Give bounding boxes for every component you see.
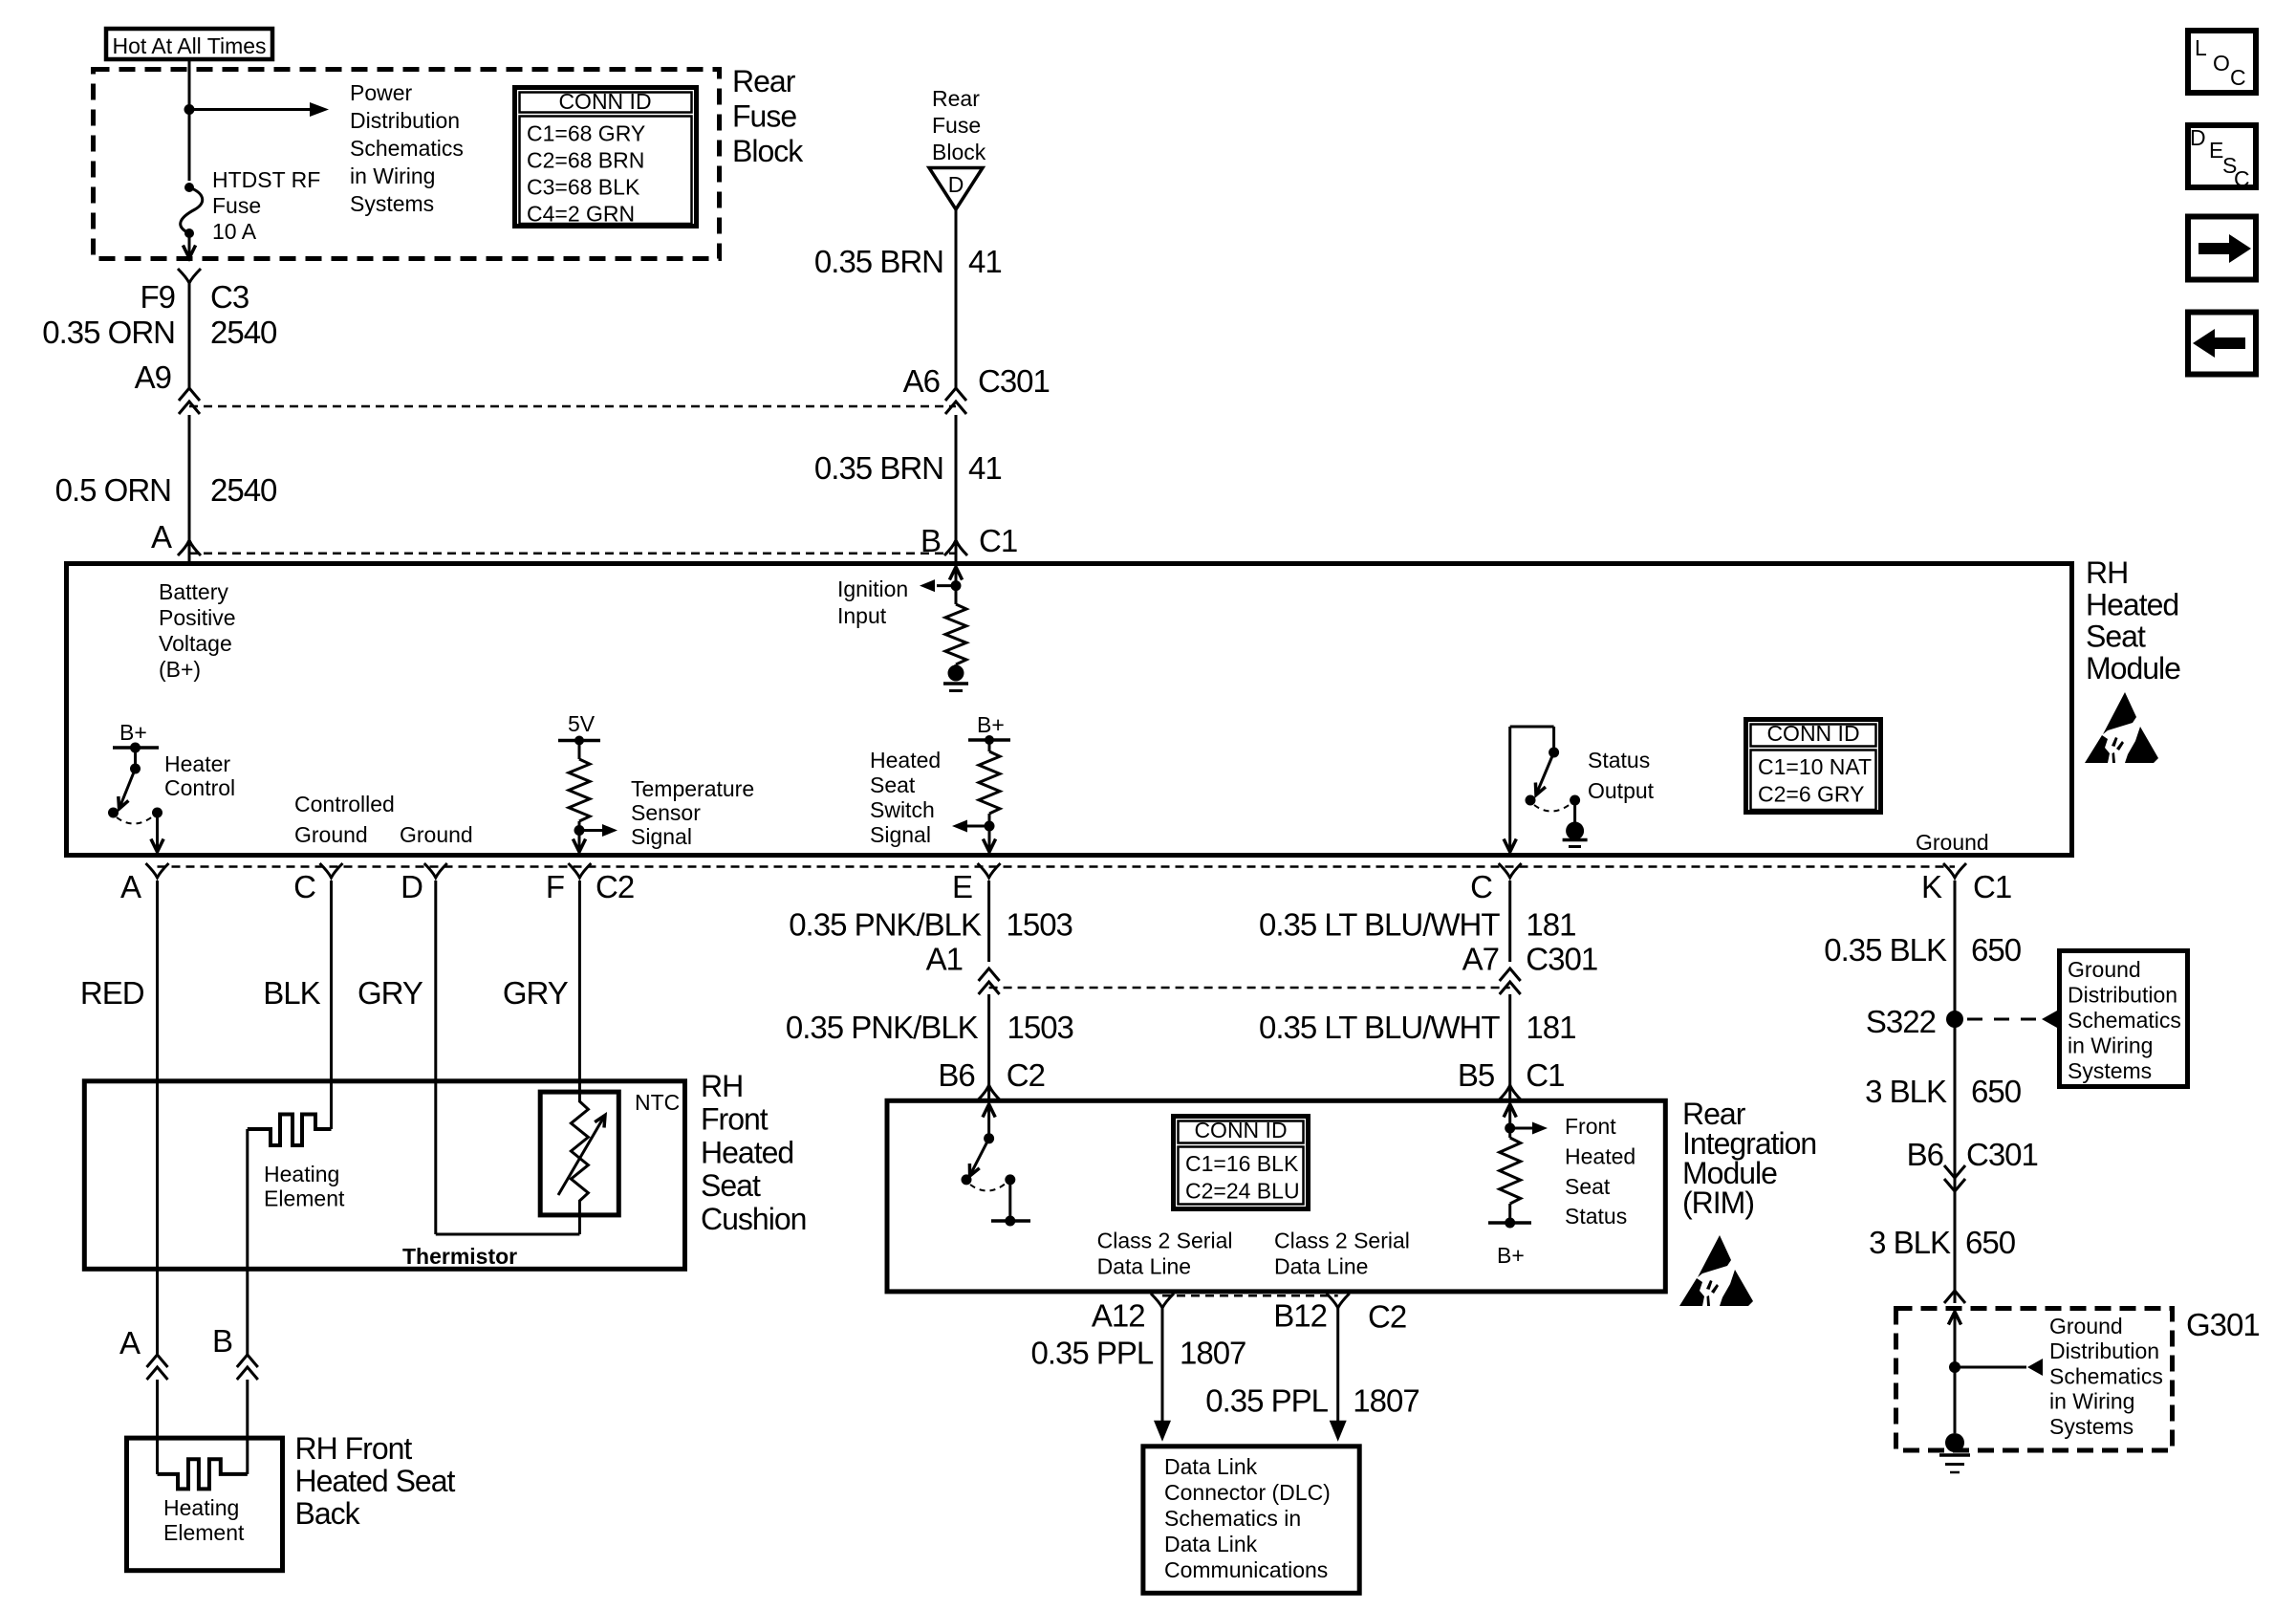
svg-text:Heater: Heater xyxy=(164,751,230,776)
connector fork RIM pin B6 xyxy=(978,1085,1001,1100)
wire 1503 pin E lower xyxy=(987,994,990,1099)
svg-text:2540: 2540 xyxy=(210,315,277,350)
svg-text:RH: RH xyxy=(701,1069,743,1103)
pin label B6 | C2 xyxy=(938,1057,1045,1093)
wire seat switch to pin E xyxy=(983,826,995,852)
svg-text:Control: Control xyxy=(164,775,235,800)
wire BLK pin C to heating element xyxy=(330,881,333,1129)
resistor ignition pull-down xyxy=(945,604,966,664)
pin label C2 xyxy=(596,869,634,904)
svg-text:CONN ID: CONN ID xyxy=(1194,1118,1287,1142)
splice S322 xyxy=(1946,1011,1963,1028)
svg-text:A: A xyxy=(151,519,172,555)
svg-text:F: F xyxy=(546,869,564,904)
pin letter C (status output) xyxy=(1470,869,1492,904)
resistor temperature sensor pull-up xyxy=(569,741,590,831)
svg-text:A1: A1 xyxy=(926,942,963,977)
switch RIM heated seat input xyxy=(962,1104,996,1185)
label 0.5 ORN | 2540 xyxy=(55,472,277,508)
wire 1807 B12 xyxy=(1330,1308,1347,1442)
label S322 xyxy=(1866,1004,1936,1039)
label Ground (pin D) xyxy=(400,822,473,847)
svg-text:Communications: Communications xyxy=(1164,1557,1328,1582)
wire heating element to seat back (B) xyxy=(246,1129,249,1355)
svg-text:in Wiring: in Wiring xyxy=(2049,1389,2134,1414)
label Controlled Ground xyxy=(294,792,395,847)
svg-text:C301: C301 xyxy=(978,363,1050,399)
label 3 BLK | 650 (upper) xyxy=(1865,1074,2022,1109)
pin label A1 xyxy=(926,942,963,977)
label Data Link Connector (DLC) Schematics xyxy=(1164,1454,1331,1582)
svg-text:0.35 ORN: 0.35 ORN xyxy=(42,315,175,350)
svg-text:D: D xyxy=(401,869,422,904)
svg-text:41: 41 xyxy=(968,244,1002,279)
svg-text:0.35 PNK/BLK: 0.35 PNK/BLK xyxy=(786,1010,979,1045)
svg-text:41: 41 xyxy=(968,450,1002,486)
wire into module pin A (battery feed) xyxy=(188,541,191,561)
svg-text:C1: C1 xyxy=(1526,1057,1564,1093)
svg-text:Status: Status xyxy=(1588,748,1650,772)
junction dot seat switch signal xyxy=(985,821,995,832)
label Rear Fuse Block (small) xyxy=(932,86,986,164)
svg-text:C2: C2 xyxy=(1007,1057,1045,1093)
label box Hot At All Times xyxy=(106,29,272,59)
wire hot feed vertical xyxy=(188,61,191,181)
svg-text:0.35 BLK: 0.35 BLK xyxy=(1824,932,1947,968)
svg-text:C1=16 BLK: C1=16 BLK xyxy=(1185,1151,1299,1176)
inline connector A double chevron (seat back) xyxy=(147,1355,168,1380)
svg-text:650: 650 xyxy=(1971,932,2022,968)
connector fork module pin B xyxy=(944,540,967,555)
svg-text:B+: B+ xyxy=(977,712,1005,737)
component box RH Front Heated Seat Cushion xyxy=(84,1081,684,1270)
icon box right arrow xyxy=(2188,217,2256,280)
svg-text:B: B xyxy=(921,523,941,558)
pin label B6 | C301 (ground) xyxy=(1907,1137,2038,1172)
label 0.35 BRN | 41 (lower) xyxy=(814,450,1002,486)
svg-text:B+: B+ xyxy=(119,720,147,745)
connector fork RIM pin B5 xyxy=(1499,1085,1522,1100)
label G301 xyxy=(2186,1307,2260,1342)
label 0.35 ORN | 2540 (upper) xyxy=(42,315,277,350)
label Power Distribution Schematics in Wiring Systems xyxy=(350,80,464,216)
wire ignition input entry xyxy=(949,567,962,604)
label Thermistor xyxy=(402,1244,517,1269)
inline connector A1 double chevron xyxy=(979,968,1000,994)
pin letter K xyxy=(1921,869,1942,904)
svg-text:181: 181 xyxy=(1526,1010,1575,1045)
label RED xyxy=(80,975,144,1011)
svg-text:Distribution: Distribution xyxy=(350,108,460,133)
label RH Front Heated Seat Back xyxy=(295,1431,456,1531)
pin label A7 | C301 xyxy=(1462,942,1598,977)
svg-text:B6: B6 xyxy=(1907,1137,1943,1172)
label GRY (pin D) xyxy=(357,975,423,1011)
svg-text:C2: C2 xyxy=(596,869,634,904)
svg-text:Status: Status xyxy=(1565,1204,1627,1229)
label 0.35 PPL | 1807 (B12) xyxy=(1205,1382,1419,1418)
svg-text:Positive: Positive xyxy=(159,605,236,630)
connector fork RIM pin A12 xyxy=(1151,1294,1174,1308)
label 3 BLK | 650 (lower) xyxy=(1869,1225,2016,1260)
svg-text:Schematics: Schematics xyxy=(2049,1363,2163,1388)
icon box LOC xyxy=(2188,31,2256,93)
connector fork RIM pin B12 xyxy=(1327,1294,1350,1308)
svg-text:2540: 2540 xyxy=(210,472,277,508)
label 0.35 BRN | 41 (upper) xyxy=(814,244,1002,279)
arrow heated seat switch signal xyxy=(952,820,989,833)
pin label B5 | C1 xyxy=(1458,1057,1565,1093)
svg-text:0.35 PNK/BLK: 0.35 PNK/BLK xyxy=(789,907,982,943)
svg-text:1503: 1503 xyxy=(1007,907,1072,943)
svg-text:Heated: Heated xyxy=(870,748,941,772)
svg-text:C301: C301 xyxy=(1526,942,1597,977)
svg-text:Seat: Seat xyxy=(701,1168,761,1203)
svg-text:K: K xyxy=(1921,869,1942,904)
pin label A (seat back) xyxy=(119,1325,141,1360)
svg-text:Class 2 Serial: Class 2 Serial xyxy=(1274,1229,1410,1253)
connector fork pin C xyxy=(320,863,343,878)
connector fork pin D xyxy=(424,863,447,878)
switch arc RIM xyxy=(970,1174,1015,1190)
connector F9/C3 fork xyxy=(178,269,201,283)
svg-text:A6: A6 xyxy=(903,363,940,399)
dashed connector line below module (C1/C2) xyxy=(158,865,1956,868)
inline connector A6 double chevron xyxy=(945,388,966,414)
power symbol B+ (seat switch) xyxy=(968,712,1010,745)
svg-text:B+: B+ xyxy=(1497,1243,1525,1268)
svg-text:S322: S322 xyxy=(1866,1004,1936,1039)
wire 0.35 ORN 2540 (upper) xyxy=(188,283,191,389)
svg-text:Heated: Heated xyxy=(1565,1143,1635,1168)
label GRY (pin F) xyxy=(503,975,569,1011)
svg-text:A: A xyxy=(119,1325,141,1360)
svg-text:C301: C301 xyxy=(1966,1137,2038,1172)
junction dot power distribution tap xyxy=(184,104,195,115)
svg-text:Power: Power xyxy=(350,80,413,105)
svg-text:Fuse: Fuse xyxy=(212,193,261,218)
svg-text:Ignition: Ignition xyxy=(837,577,908,601)
svg-text:Front: Front xyxy=(701,1102,769,1137)
svg-text:Data Line: Data Line xyxy=(1274,1253,1368,1278)
svg-text:Schematics: Schematics xyxy=(350,136,464,161)
svg-text:Heating: Heating xyxy=(264,1162,339,1186)
pin label A9 xyxy=(135,359,171,395)
label Heating Element (cushion) xyxy=(264,1162,345,1211)
svg-text:NTC: NTC xyxy=(635,1090,680,1115)
svg-text:Systems: Systems xyxy=(2049,1414,2134,1439)
svg-text:Output: Output xyxy=(1588,778,1655,803)
svg-text:Back: Back xyxy=(295,1496,361,1531)
svg-text:Thermistor: Thermistor xyxy=(402,1244,517,1269)
label Ground Distribution Schematics in Wiring Systems (S322) xyxy=(2068,957,2181,1083)
svg-text:(RIM): (RIM) xyxy=(1682,1186,1754,1220)
label Heated Seat Switch Signal xyxy=(870,748,941,847)
svg-text:C: C xyxy=(2234,166,2250,191)
svg-text:C4=2 GRN: C4=2 GRN xyxy=(527,202,635,227)
switch heater control xyxy=(108,748,141,818)
svg-text:E: E xyxy=(952,869,972,904)
junction dot front heated seat status xyxy=(1505,1123,1515,1134)
svg-text:B: B xyxy=(212,1323,232,1359)
svg-text:Switch: Switch xyxy=(870,797,935,822)
wire B into seat back xyxy=(246,1380,249,1474)
svg-text:1503: 1503 xyxy=(1007,1010,1073,1045)
inline connector C301 double chevron down xyxy=(1944,1165,1965,1191)
svg-text:C1=10 NAT: C1=10 NAT xyxy=(1758,754,1872,779)
dashed connector line C2 row A1-A7 xyxy=(989,987,1510,990)
svg-text:Data Line: Data Line xyxy=(1097,1253,1191,1278)
wire 1807 A12 xyxy=(1154,1308,1171,1442)
connector fork pin C (status) xyxy=(1499,863,1522,878)
svg-text:C: C xyxy=(2230,65,2246,90)
label HTDST RF Fuse 10 A xyxy=(212,167,320,244)
label Battery Positive Voltage (B+) xyxy=(159,579,236,682)
svg-text:Systems: Systems xyxy=(2068,1058,2152,1083)
arrow front heated seat status xyxy=(1510,1122,1548,1135)
svg-text:Input: Input xyxy=(837,603,887,628)
pin letter D xyxy=(401,869,422,904)
svg-text:C1: C1 xyxy=(1973,869,2011,904)
svg-text:1807: 1807 xyxy=(1353,1382,1419,1418)
wire RED pin A to seat back xyxy=(156,881,159,1354)
wire GRY pin F to thermistor xyxy=(578,881,581,1102)
svg-text:Seat: Seat xyxy=(870,772,916,797)
pin label A6 | C301 xyxy=(903,363,1050,399)
arrow G301 to ground distribution xyxy=(1955,1359,2043,1376)
svg-text:Systems: Systems xyxy=(350,191,434,216)
svg-text:Module: Module xyxy=(2086,651,2180,685)
junction dot G301 xyxy=(1949,1361,1960,1373)
svg-text:Heated: Heated xyxy=(701,1135,793,1169)
svg-text:C2=24 BLU: C2=24 BLU xyxy=(1185,1179,1300,1204)
svg-text:C: C xyxy=(1470,869,1492,904)
svg-text:RH: RH xyxy=(2086,555,2128,590)
pin label B | C1 xyxy=(921,523,1017,558)
svg-text:L: L xyxy=(2195,35,2207,60)
label 0.35 PNK/BLK | 1503 (upper) xyxy=(789,907,1072,943)
label Class 2 Serial Data Line (right) xyxy=(1274,1229,1410,1279)
svg-text:Ground: Ground xyxy=(2049,1314,2123,1338)
svg-text:B6: B6 xyxy=(938,1057,974,1093)
svg-text:B5: B5 xyxy=(1458,1057,1494,1093)
connector fork pin E xyxy=(978,863,1001,878)
svg-text:CONN ID: CONN ID xyxy=(558,89,651,114)
svg-text:Signal: Signal xyxy=(631,824,692,849)
wire 0.35 BRN 41 (lower) xyxy=(955,415,958,561)
svg-text:Block: Block xyxy=(732,134,804,168)
thermistor symbol xyxy=(558,1101,605,1201)
pin label F9 | C3 xyxy=(140,279,249,315)
svg-text:Class 2 Serial: Class 2 Serial xyxy=(1097,1229,1233,1253)
arrow temperature sensor signal xyxy=(579,824,617,837)
switch status output xyxy=(1504,727,1559,852)
label Rear Fuse Block (big) xyxy=(732,64,804,168)
svg-text:Distribution: Distribution xyxy=(2049,1338,2159,1363)
label RH Heated Seat Module xyxy=(2086,555,2180,685)
CONN ID table rear fuse block xyxy=(515,88,697,227)
dashed connector line row A-B xyxy=(189,552,956,555)
pin label A xyxy=(151,519,172,555)
ground symbol status output xyxy=(1563,800,1588,847)
svg-text:3 BLK: 3 BLK xyxy=(1869,1225,1951,1260)
svg-text:Fuse: Fuse xyxy=(932,113,981,138)
svg-text:Ground: Ground xyxy=(400,822,473,847)
svg-text:C1=68 GRY: C1=68 GRY xyxy=(527,121,645,146)
svg-text:650: 650 xyxy=(1971,1074,2022,1109)
svg-text:0.5 ORN: 0.5 ORN xyxy=(55,472,171,508)
connector fork pin F xyxy=(568,863,591,878)
label 0.35 PNK/BLK | 1503 (lower) xyxy=(786,1010,1073,1045)
svg-text:Sensor: Sensor xyxy=(631,800,701,825)
pin label C1 (module ground) xyxy=(1973,869,2011,904)
svg-text:Schematics: Schematics xyxy=(2068,1008,2181,1033)
icon box DESC xyxy=(2188,125,2256,191)
label Heater Control xyxy=(164,751,235,800)
heating element (seat back) xyxy=(158,1459,248,1489)
svg-text:GRY: GRY xyxy=(503,975,569,1011)
wire ground into G301 xyxy=(1948,1312,1960,1433)
svg-text:Schematics in: Schematics in xyxy=(1164,1506,1301,1531)
pin letter C xyxy=(293,869,315,904)
resistor front heated seat status xyxy=(1500,1104,1521,1223)
power symbol 5V xyxy=(558,711,600,746)
resistor heated seat switch pull-up xyxy=(979,740,1000,826)
wire 1503 pin E upper xyxy=(987,881,990,962)
svg-text:0.35 LT BLU/WHT: 0.35 LT BLU/WHT xyxy=(1259,907,1500,943)
svg-text:Heating: Heating xyxy=(163,1495,239,1520)
wire 181 status lower xyxy=(1508,994,1511,1099)
thermistor box NTC xyxy=(540,1090,680,1215)
svg-text:5V: 5V xyxy=(568,711,596,736)
svg-text:C2=6 GRY: C2=6 GRY xyxy=(1758,782,1864,807)
ground symbol G301 earth xyxy=(1939,1433,1970,1472)
svg-text:0.35 BRN: 0.35 BRN xyxy=(814,244,943,279)
svg-text:Controlled: Controlled xyxy=(294,792,395,816)
pin label A12 xyxy=(1092,1298,1145,1334)
connector fork module pin A xyxy=(178,540,201,555)
svg-text:F9: F9 xyxy=(140,279,175,315)
svg-text:(B+): (B+) xyxy=(159,657,201,682)
junction dot temperature sensor xyxy=(574,825,585,836)
wire heater control to pin A xyxy=(151,813,163,852)
ESD sensitivity symbol (RIM) xyxy=(1679,1235,1753,1306)
switch arc status output xyxy=(1534,795,1580,812)
wire 0.5 ORN 2540 (lower) xyxy=(188,415,191,541)
fuse HTDST RF 10A xyxy=(181,183,203,238)
svg-text:Seat: Seat xyxy=(1565,1174,1611,1199)
dashed connector line C301 row A9-A6 xyxy=(189,405,956,408)
svg-text:RH Front: RH Front xyxy=(295,1431,413,1466)
svg-text:3 BLK: 3 BLK xyxy=(1865,1074,1947,1109)
svg-text:Block: Block xyxy=(932,140,986,164)
svg-text:GRY: GRY xyxy=(357,975,423,1011)
svg-text:Data Link: Data Link xyxy=(1164,1454,1258,1479)
svg-text:Ground: Ground xyxy=(294,822,368,847)
label Status Output xyxy=(1588,748,1655,803)
label 0.35 LT BLU/WHT | 181 (upper) xyxy=(1259,907,1575,943)
wire GRY pin D xyxy=(436,881,580,1234)
CONN ID table heated seat module xyxy=(1746,720,1881,813)
connector triangle D rear fuse block xyxy=(929,168,983,210)
svg-text:Data Link: Data Link xyxy=(1164,1532,1258,1556)
svg-text:A12: A12 xyxy=(1092,1298,1145,1334)
svg-text:Heated: Heated xyxy=(2086,587,2178,621)
svg-text:C2=68 BRN: C2=68 BRN xyxy=(527,148,644,173)
svg-text:Heated Seat: Heated Seat xyxy=(295,1464,456,1498)
svg-text:BLK: BLK xyxy=(263,975,320,1011)
svg-text:0.35 LT BLU/WHT: 0.35 LT BLU/WHT xyxy=(1259,1010,1500,1045)
svg-text:RED: RED xyxy=(80,975,144,1011)
dashed box Rear Fuse Block (power) xyxy=(94,70,720,259)
svg-text:G301: G301 xyxy=(2186,1307,2260,1342)
module box RH Heated Seat Module xyxy=(67,564,2072,856)
svg-text:0.35 PPL: 0.35 PPL xyxy=(1205,1382,1328,1418)
svg-text:1807: 1807 xyxy=(1180,1336,1245,1371)
component box RH Front Heated Seat Back xyxy=(127,1438,283,1571)
svg-text:Rear: Rear xyxy=(732,64,796,98)
svg-text:Rear: Rear xyxy=(932,86,980,111)
label Class 2 Serial Data Line (left) xyxy=(1097,1229,1233,1279)
pin letter F xyxy=(546,869,564,904)
svg-text:10 A: 10 A xyxy=(212,219,257,244)
svg-text:Cushion: Cushion xyxy=(701,1202,806,1236)
box Ground Distribution Schematics (S322) xyxy=(2060,951,2188,1087)
svg-text:Battery: Battery xyxy=(159,579,228,604)
pin letter A xyxy=(120,869,141,904)
svg-text:C2: C2 xyxy=(1368,1298,1406,1334)
pin label B12 | C2 xyxy=(1273,1298,1406,1335)
connector fork pin K xyxy=(1943,863,1966,878)
svg-text:Voltage: Voltage xyxy=(159,631,232,656)
svg-text:HTDST RF: HTDST RF xyxy=(212,167,320,192)
svg-text:in Wiring: in Wiring xyxy=(2068,1033,2153,1058)
label Rear Integration Module (RIM) xyxy=(1682,1097,1816,1220)
svg-text:C1: C1 xyxy=(979,523,1017,558)
icon box left arrow xyxy=(2188,313,2256,375)
wire 181 status upper xyxy=(1508,881,1511,962)
dashed box ground G301 xyxy=(1896,1309,2173,1451)
svg-text:A9: A9 xyxy=(135,359,171,395)
heating element (cushion) xyxy=(248,1115,332,1146)
svg-text:A: A xyxy=(120,869,141,904)
label BLK xyxy=(263,975,320,1011)
svg-text:Front: Front xyxy=(1565,1114,1616,1139)
svg-text:O: O xyxy=(2213,51,2230,76)
label Front Heated Seat Status xyxy=(1565,1114,1635,1229)
ESD sensitivity symbol (module) xyxy=(2085,692,2158,763)
svg-text:in Wiring: in Wiring xyxy=(350,163,435,188)
arrow ignition input xyxy=(920,579,956,592)
inline connector G301 chevron xyxy=(1944,1291,1965,1303)
svg-text:CONN ID: CONN ID xyxy=(1766,721,1859,746)
svg-text:B12: B12 xyxy=(1273,1298,1327,1334)
wire thermistor lower lead xyxy=(578,1200,581,1217)
svg-text:Fuse: Fuse xyxy=(732,99,796,134)
contact terminal RIM switch xyxy=(991,1180,1030,1227)
svg-text:C3=68 BLK: C3=68 BLK xyxy=(527,175,640,200)
svg-text:Temperature: Temperature xyxy=(631,776,754,801)
wire temp sensor to pin F xyxy=(573,831,585,853)
dashed connector line C2 row A12-B12 xyxy=(1162,1295,1338,1297)
power symbol B+ (heater control) xyxy=(113,720,159,753)
pin label B (seat back) xyxy=(212,1323,232,1359)
label Ground (pin K) xyxy=(1916,830,1989,855)
svg-text:D: D xyxy=(2190,125,2206,150)
svg-text:Seat: Seat xyxy=(2086,620,2146,654)
label Temperature Sensor Signal xyxy=(631,776,754,849)
svg-text:181: 181 xyxy=(1526,907,1575,943)
